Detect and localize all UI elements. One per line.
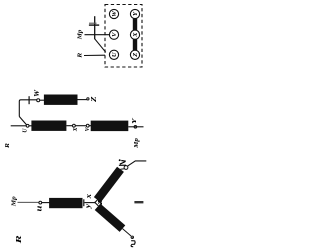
svg-text:U: U <box>111 52 118 57</box>
earth symbol long bar <box>89 24 99 26</box>
terminal board dashed border <box>105 5 142 68</box>
wire U circle to winding <box>29 125 32 127</box>
wire V to winding <box>89 125 91 127</box>
svg-text:Mp: Mp <box>78 30 84 41</box>
terminal circle u <box>39 201 42 204</box>
star bridge link Y-X <box>133 19 137 31</box>
svg-text:X: X <box>73 127 79 132</box>
wire winding to Y and Mp <box>128 126 143 128</box>
svg-text:R: R <box>4 143 11 149</box>
winding u-x (bar) <box>49 198 82 208</box>
winding V-Y (bar) <box>91 121 129 132</box>
wire u circle to winding <box>42 202 50 204</box>
terminal circle X <box>73 124 76 127</box>
star point node <box>94 202 95 203</box>
wire star point to winding w <box>95 203 98 206</box>
terminal X <box>130 30 139 39</box>
winding w-z (diagonal bar down-right) <box>95 204 126 232</box>
wire to star point <box>85 202 95 204</box>
end dot Z <box>87 98 89 100</box>
svg-text:u: u <box>33 205 43 211</box>
wire R to terminal U <box>84 54 105 56</box>
wire winding to circle w <box>123 229 132 236</box>
terminal circle w <box>131 236 134 239</box>
wire earth to terminal U (diagonal) <box>95 39 106 53</box>
svg-text:Mp: Mp <box>10 196 17 207</box>
star bridge link X-Z <box>133 39 137 50</box>
terminal Z <box>130 50 139 59</box>
wire line R into node U <box>11 125 27 127</box>
wire winding to X <box>66 125 72 127</box>
svg-text:R: R <box>14 235 23 245</box>
terminal circle U <box>26 124 29 127</box>
voltage dash mark <box>134 201 143 203</box>
wire corner from line R branch to winding W <box>19 100 37 117</box>
svg-text:x: x <box>84 194 93 199</box>
label w <box>131 241 135 247</box>
earth symbol short bar <box>89 22 97 24</box>
svg-text:R: R <box>77 53 84 59</box>
earth symbol stem <box>94 16 96 39</box>
svg-text:W: W <box>34 89 41 97</box>
wire winding to circle v <box>121 168 125 171</box>
winding W-Z (bar) <box>44 95 78 105</box>
svg-text:X: X <box>132 32 139 38</box>
terminal circle Y <box>134 126 137 129</box>
wire Mp to circle u <box>18 201 40 203</box>
wire Mp to terminal V <box>85 34 110 36</box>
terminal circle v <box>124 166 128 170</box>
wire diagonal branch to terminal U node <box>19 117 26 125</box>
winding U-X (bar) <box>31 121 66 131</box>
svg-text:Mp: Mp <box>134 138 140 149</box>
terminal circle V <box>86 124 89 127</box>
svg-text:Z: Z <box>90 95 98 103</box>
terminal Y <box>130 9 139 18</box>
svg-text:V: V <box>111 32 118 37</box>
label v <box>119 161 126 166</box>
svg-text:y: y <box>83 203 92 209</box>
winding v-y (diagonal bar up-right) <box>94 167 124 203</box>
wire winding to end Z <box>78 99 88 101</box>
terminal V <box>109 30 118 39</box>
wire X to V <box>75 125 86 127</box>
terminal U <box>109 50 118 59</box>
wire line S from v <box>127 161 146 166</box>
terminal stub at x end <box>83 199 85 206</box>
terminal circle W <box>37 99 40 102</box>
wire star point to winding v <box>95 199 98 202</box>
wire W circle to winding <box>40 99 45 101</box>
terminal W <box>109 9 118 18</box>
svg-text:Z: Z <box>132 53 139 58</box>
terminal stub row 1 <box>28 96 30 104</box>
